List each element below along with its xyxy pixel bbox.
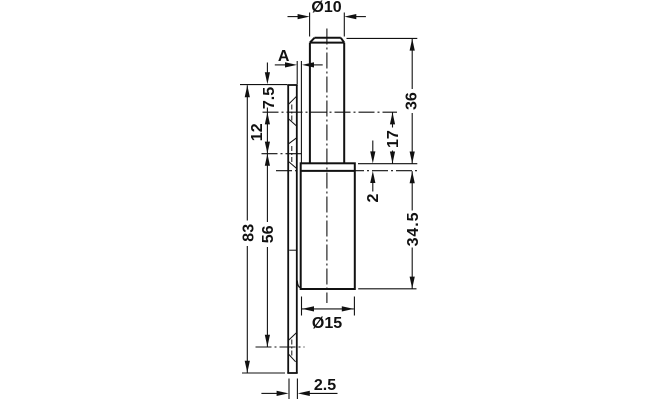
extension line Ø10 left [309,13,311,37]
svg-text:Ø15: Ø15 [312,315,342,332]
dimension 7.5 [266,63,268,73]
dimension Ø10 [288,16,366,18]
svg-text:2: 2 [365,193,382,202]
svg-text:17: 17 [385,130,402,148]
extension line A right [300,61,302,163]
extension line Ø15 right [353,297,355,316]
svg-text:7.5: 7.5 [261,87,278,109]
extension line cylinder top right [358,163,417,165]
svg-text:36: 36 [404,92,421,110]
dimension 12 [266,112,268,153]
extension line pin top right [347,37,418,39]
extension line plate bottom left [242,372,285,374]
svg-text:2.5: 2.5 [314,377,336,394]
centerline horizontal plate hole 3 [256,346,305,348]
centerline vertical pin axis [326,29,328,304]
plate outline [287,85,297,373]
dimension 17 [392,112,394,163]
svg-text:34.5: 34.5 [405,212,422,247]
cylinder outline [301,163,355,289]
plate hole cross tick 2 [291,146,293,162]
extension line 2.5 left [288,379,290,400]
extension line Ø15 left [301,297,303,316]
extension line cylinder bottom right [358,288,416,290]
svg-text:83: 83 [241,224,258,242]
svg-text:Ø10: Ø10 [311,0,341,16]
centerline horizontal upper (17 ref) [263,111,398,113]
extension line A left [296,61,298,84]
centerline horizontal plate hole 2 [262,153,305,155]
extension line 2.5 right [296,379,298,400]
svg-text:12: 12 [249,123,266,141]
extension line plate top left [240,84,287,86]
pin outline [310,38,344,164]
centerline horizontal main axis [276,170,417,172]
plate hole cross tick 1 [291,105,293,121]
weld fillet [297,281,301,289]
plate hatch marks [288,96,297,362]
dimension 34.5 [411,171,413,288]
extension line Ø10 right [343,13,345,37]
svg-text:A: A [278,48,290,65]
dimension 2 [372,141,374,153]
dimension 83 [246,85,248,373]
dimension 36 [411,39,413,164]
svg-text:56: 56 [260,225,277,243]
dimension 56 [266,154,268,347]
plate hole cross tick 3 [291,340,293,356]
dimension 2.5 [261,392,337,394]
dimension A [275,64,323,66]
dimension Ø15 [302,308,354,310]
